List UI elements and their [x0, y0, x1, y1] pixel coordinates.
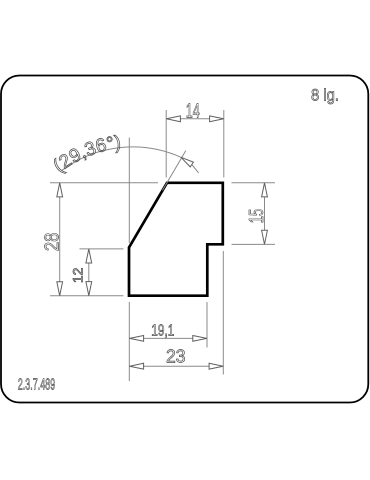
svg-text:8 lg.: 8 lg. [311, 87, 339, 105]
dimension line 23 [130, 365, 224, 367]
arrow top of dim 12 [86, 249, 92, 263]
dimension line 28 [59, 183, 61, 296]
slant edge extension line [163, 151, 186, 191]
arrow of angle dim [181, 157, 193, 167]
arrow right of dim 19.1 [193, 336, 207, 342]
svg-text:2.3.7.489: 2.3.7.489 [18, 376, 56, 393]
part outline profile [129, 183, 223, 296]
arrow left of dim 23 [130, 363, 144, 369]
arrow bottom of dim 15 [262, 230, 268, 244]
arrow bottom of dim 28 [57, 282, 63, 296]
vertical reference extension for angle dim [128, 138, 130, 244]
svg-text:19,1: 19,1 [151, 322, 174, 339]
dimension line 15 [264, 183, 266, 245]
svg-text:15: 15 [246, 209, 268, 224]
extension line right of dim 23 [222, 251, 224, 375]
svg-text:14: 14 [186, 100, 200, 122]
extension line bottom of dim 28 [50, 295, 124, 297]
extension line left of dims 19.1 and 23 [128, 302, 130, 381]
dimension line 19.1 [130, 337, 208, 339]
extension line top of dim 15 [232, 182, 276, 184]
svg-text:23: 23 [166, 347, 186, 367]
dimension line 14 [166, 118, 223, 120]
arrow left of dim 19.1 [130, 336, 144, 342]
dimension line 12 [88, 249, 90, 296]
extension line right of dim 14 [223, 110, 225, 178]
extension line bottom of dim 15 [232, 243, 276, 245]
extension line top of dim 12 [80, 248, 124, 250]
svg-text:12: 12 [71, 268, 86, 284]
arrow bottom of dim 12 [86, 282, 92, 296]
leader tail of angle dim [192, 165, 199, 173]
extension line right of dim 19.1 [206, 302, 208, 348]
angle dimension arc [62, 147, 181, 170]
arrow top of dim 15 [262, 183, 268, 197]
extension line top of dim 28 [50, 182, 158, 184]
extension line left of dim 14 [165, 110, 167, 178]
arrow left of dim 14 [166, 116, 180, 122]
svg-text:28: 28 [40, 233, 63, 252]
arrow top of dim 28 [57, 183, 63, 197]
arrow right of dim 14 [210, 116, 224, 122]
arrow right of dim 23 [209, 363, 223, 369]
svg-text:(29,36°): (29,36°) [50, 132, 122, 177]
